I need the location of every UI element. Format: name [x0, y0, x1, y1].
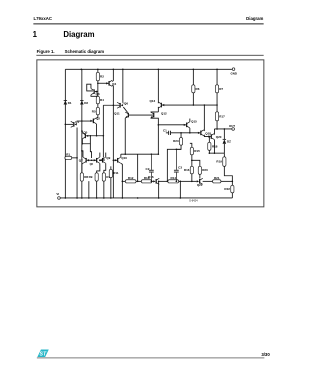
node x158 y155.3 — [158, 153, 160, 155]
resistor R2 — [96, 72, 99, 81]
wire x122.5 from rail — [122, 69, 124, 102]
resistor — [95, 173, 98, 181]
resistor — [65, 156, 72, 159]
svg-text:Diagram: Diagram — [246, 16, 263, 21]
wire y152.8 link — [209, 152, 224, 154]
wire DZ bottom — [223, 144, 225, 153]
resistor R12 — [125, 180, 136, 183]
node chain x180 — [180, 181, 182, 183]
wire Q13 emitter down — [157, 107, 159, 112]
resistor — [179, 138, 182, 146]
node Q11 emitter junction — [124, 153, 126, 155]
resistor R7 — [215, 85, 218, 93]
node pair base center — [91, 159, 93, 161]
transistor — [127, 113, 129, 118]
svg-text:L79xxAC: L79xxAC — [34, 16, 52, 21]
wire Q12 emitter down x158 — [151, 118, 159, 154]
wire Q20 collector to out — [213, 129, 215, 135]
resistor — [96, 107, 99, 115]
transistor Q5 — [84, 134, 86, 139]
node y132.5 junction — [180, 132, 182, 134]
node chain right — [232, 181, 234, 183]
wire R18 top — [208, 137, 210, 143]
wire R18 bottom — [208, 150, 210, 153]
svg-text:R5: R5 — [92, 109, 96, 113]
wire Q15 emitter down — [189, 128, 191, 133]
caption rule — [36, 54, 263, 56]
node Q4 base tap — [97, 82, 99, 84]
footer ST logo — [37, 350, 48, 358]
node Q2 base tap — [81, 120, 83, 122]
resistor R21 — [213, 180, 221, 183]
wire Q6 collector to rail bus — [122, 102, 125, 105]
svg-text:Q1: Q1 — [75, 120, 79, 124]
terminal GND — [232, 68, 235, 71]
wire Q15 base line y124.5 — [158, 124, 186, 126]
header rule — [33, 23, 263, 25]
resistor R13 — [141, 180, 152, 183]
svg-text:Q15: Q15 — [191, 120, 197, 124]
node bridge — [191, 160, 193, 162]
node Q15 emitter on y132.5 — [189, 132, 191, 134]
transistor — [210, 134, 212, 139]
wire Q9 base — [100, 159, 102, 161]
transistor Q1 — [73, 122, 75, 127]
wire Q4 base — [98, 82, 109, 84]
wire DZ top — [223, 129, 225, 139]
svg-text:GND: GND — [231, 71, 237, 75]
svg-text:Q20: Q20 — [216, 135, 222, 139]
wire x176 top link — [176, 148, 181, 150]
terminal VI input — [58, 197, 61, 200]
node chain x139.5 — [137, 181, 139, 183]
node cap C2 top — [151, 153, 153, 155]
svg-text:R2: R2 — [100, 75, 104, 79]
svg-text:Q7: Q7 — [79, 158, 83, 162]
node chain left — [122, 181, 124, 183]
svg-text:Diagram: Diagram — [63, 30, 94, 39]
wire Q20 emitter down — [213, 140, 215, 154]
wire R23 top — [180, 133, 182, 138]
wire Q1 collector to x81.5 — [77, 120, 82, 122]
wire R23 bottom route — [167, 145, 181, 181]
wire loop down to mirror node — [90, 144, 91, 158]
transistor — [199, 179, 201, 184]
figure frame — [37, 60, 264, 207]
node chain x158.3 x167 — [158, 181, 160, 183]
transistor — [155, 179, 157, 184]
wire y132.5 line — [171, 132, 201, 134]
node base Q1 — [65, 124, 67, 126]
wire base line y104.9 — [103, 104, 119, 106]
resistor R17 — [215, 112, 218, 121]
svg-text:R15: R15 — [194, 149, 200, 153]
svg-text:Q3: Q3 — [96, 92, 100, 96]
svg-text:Q21: Q21 — [197, 183, 203, 187]
diode D1 — [64, 100, 67, 102]
wire x137.3 drop — [137, 154, 139, 181]
wire chain segment b — [136, 180, 141, 182]
wire R5 bottom to Q2 collector — [97, 115, 98, 118]
svg-text:Q9: Q9 — [106, 156, 110, 160]
wire Q1 emitter down x76.5 — [76, 127, 78, 198]
wire chain segment a — [122, 180, 125, 182]
svg-text:D1: D1 — [68, 101, 72, 105]
node x113 crossings — [113, 104, 115, 106]
svg-text:Q2: Q2 — [96, 117, 100, 121]
wire C1 left stub — [166, 132, 169, 134]
wire shared base — [87, 159, 96, 161]
wire Q7 emitter to R8 — [82, 163, 83, 173]
svg-text:Q13: Q13 — [149, 99, 155, 103]
terminal OUT — [232, 128, 235, 131]
wire Q8 collector stub — [99, 153, 101, 158]
svg-text:Q10: Q10 — [121, 156, 127, 160]
svg-text:R23: R23 — [173, 139, 179, 143]
wire Q2 base — [82, 120, 93, 122]
wire chain segment g — [203, 180, 213, 182]
wire R22 top — [231, 181, 233, 185]
wire R16 bottom — [191, 174, 193, 182]
svg-text:C2: C2 — [146, 167, 150, 171]
svg-text:Q11: Q11 — [114, 112, 120, 116]
wire R9 bottom — [96, 181, 98, 198]
wire Q1 base — [65, 123, 73, 125]
wire x158 from rail — [157, 69, 159, 102]
svg-text:R7: R7 — [219, 87, 223, 91]
wire chain segment f — [192, 180, 197, 182]
transistor Q6 — [119, 103, 121, 108]
transistor — [160, 103, 162, 108]
resistor — [231, 185, 234, 193]
svg-text:OUT: OUT — [229, 124, 235, 128]
svg-text:R4: R4 — [100, 98, 104, 102]
svg-text:Q12: Q12 — [161, 112, 167, 116]
wire Q10 emitter down to chain — [121, 163, 123, 198]
wire second vertical bus x81.5 — [81, 69, 83, 174]
wire Q10 collector stub — [120, 154, 122, 157]
wire R1 to emitter bus — [72, 157, 77, 159]
wire Q18 emitter to Q20 base — [204, 135, 211, 137]
wire Q12 collector up — [151, 111, 159, 113]
node Q5 collector tap — [81, 130, 83, 132]
svg-text:R12: R12 — [128, 176, 134, 180]
wire stub x88.5 — [88, 181, 90, 198]
resistor — [198, 166, 201, 174]
resistor — [190, 147, 193, 155]
wire Q6 emitter to Q11 — [123, 107, 127, 113]
svg-text:S-6424: S-6424 — [189, 199, 198, 203]
node R1 right — [76, 157, 78, 159]
node R18 top tap — [209, 136, 211, 138]
svg-text:Q16: Q16 — [148, 175, 154, 179]
wire chain segment e — [179, 180, 192, 182]
svg-text:Figure 1.: Figure 1. — [37, 49, 55, 54]
wire Q3 base to R4 column — [95, 91, 98, 93]
wire Q5 feedback loop — [82, 136, 90, 144]
wire Q4 emitter down bus x113 — [112, 85, 113, 198]
footer rule — [37, 357, 265, 359]
node x176 tap — [176, 149, 178, 151]
transistor Q7 — [85, 158, 87, 163]
node R16 chain — [191, 181, 193, 183]
wire Q9 emitter to R10 — [104, 163, 106, 173]
wire Q5 base line right — [86, 135, 103, 137]
wire Q5 collector up — [81, 131, 84, 133]
svg-text:1: 1 — [33, 30, 38, 39]
wire R15 bottom bridge — [192, 155, 200, 167]
svg-text:R11: R11 — [113, 171, 119, 175]
node loop corner — [82, 143, 84, 145]
wire base line y104.7 right — [162, 104, 217, 106]
wire R2 bottom to node — [97, 81, 99, 97]
wire left vertical bus x65 — [64, 69, 66, 198]
svg-text:R16: R16 — [184, 168, 190, 172]
svg-text:R20: R20 — [202, 168, 208, 172]
wire R11 bottom — [110, 178, 112, 198]
wire R6 top — [192, 69, 194, 85]
wire Q15 collector stub — [189, 119, 191, 122]
wire R22 bottom to rail — [231, 193, 233, 198]
transistor — [186, 123, 188, 128]
wire Q8 emitter to R9 — [97, 163, 100, 173]
svg-text:R19: R19 — [216, 160, 222, 164]
wire x180 stub to rail — [179, 181, 181, 198]
wire R7 bottom — [216, 93, 218, 105]
wire x97.5 top stub to rail — [97, 69, 99, 72]
resistor — [102, 173, 105, 181]
wire chain segment h — [221, 180, 232, 182]
wire y153.8 link — [121, 153, 159, 155]
svg-text:R18: R18 — [212, 144, 218, 148]
svg-text:R6: R6 — [196, 87, 200, 91]
node y152.8 junctions — [209, 152, 211, 154]
svg-text:C3: C3 — [178, 166, 182, 170]
wire second bus lower segment — [81, 181, 83, 198]
capacitor C3 — [175, 149, 177, 170]
wire R10 bottom — [103, 181, 105, 198]
node Q2 emitter join — [96, 135, 98, 137]
svg-text:Q6: Q6 — [124, 102, 128, 106]
wire Q10 base — [113, 159, 117, 161]
wire R17 to output line — [216, 121, 218, 129]
wire chain segment c — [152, 180, 154, 182]
node bottom rail junctions — [65, 197, 67, 199]
transistor Q9 — [102, 158, 104, 163]
node R4 top — [97, 96, 99, 98]
node output junctions — [216, 128, 218, 130]
svg-text:R1: R1 — [66, 152, 70, 156]
wire Q3 emitter down — [91, 95, 98, 97]
svg-text:3/30: 3/30 — [261, 352, 270, 357]
node y104.7 junctions — [193, 104, 195, 106]
resistor R4 — [96, 96, 99, 104]
wire Q13 collector to rail bus — [157, 102, 159, 105]
svg-text:DZ: DZ — [227, 139, 231, 143]
node Q5 base — [90, 135, 92, 137]
wire mid bus x103 — [102, 105, 104, 157]
resistor — [190, 166, 193, 174]
wire bottom rail — [60, 197, 232, 199]
wire R6 bottom — [192, 93, 194, 105]
node x158 y124.5 — [158, 124, 160, 126]
wire pair base link — [129, 114, 153, 116]
resistor — [223, 157, 226, 167]
svg-text:R22: R22 — [224, 187, 230, 191]
capacitor C2 — [150, 154, 152, 170]
wire R7 top — [216, 69, 218, 85]
transistor Q8 — [96, 158, 98, 163]
resistor — [80, 173, 83, 181]
node top rail junctions — [81, 69, 83, 71]
svg-text:Q18: Q18 — [205, 131, 211, 135]
wire x158.3 stub to rail — [158, 181, 160, 198]
resistor R14 — [168, 180, 179, 183]
node R1 left — [65, 157, 67, 159]
svg-text:D2: D2 — [84, 101, 88, 105]
svg-text:VI: VI — [56, 192, 59, 196]
transistor Q2 — [92, 119, 94, 124]
resistor — [208, 142, 211, 150]
wire Q11 emitter down x124.9 — [124, 118, 126, 154]
transistor — [200, 131, 202, 136]
transistor — [153, 113, 155, 118]
wire output line — [214, 128, 232, 130]
resistor — [109, 169, 112, 177]
wire chain segment d — [159, 180, 168, 182]
wire top rail — [65, 68, 232, 70]
wire R20 bottom to Q21 — [199, 174, 201, 178]
wire Q4 collector to rail — [112, 69, 113, 81]
node x103 on node line — [103, 135, 105, 137]
transistor Q4 — [108, 81, 110, 86]
wire R17 feed — [216, 105, 218, 112]
resistor R6 — [192, 85, 195, 93]
wire R11 top stub — [110, 166, 112, 169]
svg-text:C1: C1 — [163, 129, 167, 133]
svg-text:R17: R17 — [219, 114, 225, 118]
svg-text:Q5: Q5 — [83, 131, 87, 135]
svg-text:R14: R14 — [170, 176, 176, 180]
node R17 top — [216, 104, 218, 106]
wire Q9 collector up bus x105.4 — [105, 153, 107, 158]
wire Q2 emitter down to node line — [96, 124, 98, 136]
wire R4-R5 link — [97, 104, 99, 108]
wire Q3 collector loop top — [87, 84, 93, 91]
svg-text:ST: ST — [40, 352, 47, 358]
wire Q7 collector up — [82, 151, 83, 157]
diode DZ — [223, 139, 227, 143]
transistor Q10 — [117, 158, 119, 163]
svg-text:R9: R9 — [89, 175, 93, 179]
wire R15 top from Q15 area — [190, 143, 192, 147]
wire R19 top — [223, 153, 225, 157]
wire R16 link — [191, 160, 193, 166]
diode D2 — [80, 100, 83, 102]
svg-text:Schematic diagram: Schematic diagram — [65, 49, 105, 54]
svg-text:R21: R21 — [214, 176, 220, 180]
transistor Q3 — [93, 89, 95, 94]
wire Q18 collector up — [203, 105, 205, 131]
wire R19 bottom to corner — [224, 166, 232, 181]
